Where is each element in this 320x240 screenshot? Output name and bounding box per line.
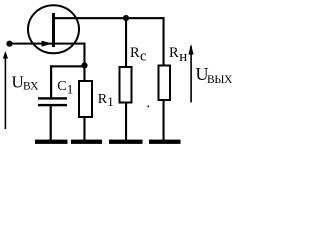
ground (Rc branch) <box>109 140 143 144</box>
label Rn <box>169 45 187 65</box>
svg-text:1: 1 <box>107 94 114 109</box>
wire: source lead right <box>54 43 86 45</box>
wire: junction left toward C1 <box>50 65 85 67</box>
node: source junction dot <box>81 62 87 68</box>
output voltage arrow (up) <box>188 44 193 103</box>
ground (Rn branch) <box>149 140 181 144</box>
ground (C1 branch) <box>35 140 68 144</box>
transistor VT1 envelope circle <box>28 5 79 53</box>
svg-text:ВЫХ: ВЫХ <box>207 74 233 86</box>
input terminal dot <box>6 41 12 47</box>
svg-text:ВХ: ВХ <box>23 81 39 93</box>
label U_vyx <box>196 64 234 86</box>
transistor VT1 channel bar <box>52 13 55 47</box>
label Rc <box>130 45 146 64</box>
capacitor C1 top plate <box>38 97 67 99</box>
wire: R1 to ground <box>83 118 85 140</box>
resistor R1 body <box>79 81 92 117</box>
wire: down to C1 top plate <box>50 65 52 98</box>
svg-text:R: R <box>98 92 108 107</box>
stray speck <box>148 106 150 108</box>
ground (R1 branch) <box>71 140 102 144</box>
capacitor C1 bottom plate <box>38 104 67 106</box>
node: junction dot on drain rail <box>123 15 129 21</box>
wire: Rn to ground <box>163 101 165 140</box>
wire: gate lead from input to transistor <box>10 43 53 45</box>
wire: drain rail corner down to Rn <box>163 17 165 65</box>
wire: junction down to R1 <box>83 65 85 80</box>
transistor VT1 gate arrowhead <box>42 41 53 47</box>
resistor Rc body <box>120 67 132 103</box>
wire: Rc branch from rail down <box>125 18 127 67</box>
label C1 <box>57 79 73 96</box>
svg-text:1: 1 <box>67 82 74 97</box>
svg-text:н: н <box>179 49 187 65</box>
svg-text:R: R <box>130 45 140 61</box>
wire: source lead down <box>83 43 85 67</box>
svg-text:R: R <box>169 45 179 61</box>
wire: Rc to ground <box>125 104 127 141</box>
svg-text:с: с <box>140 48 146 64</box>
label R1 <box>98 92 114 109</box>
label U_vx <box>12 73 40 93</box>
input voltage arrow (up) <box>3 51 8 129</box>
resistor Rn body <box>159 66 171 101</box>
svg-text:C: C <box>57 79 66 94</box>
wire: C1 to ground <box>50 106 52 140</box>
wire: drain rail (top) <box>53 17 165 19</box>
svg-text:U: U <box>12 73 24 92</box>
